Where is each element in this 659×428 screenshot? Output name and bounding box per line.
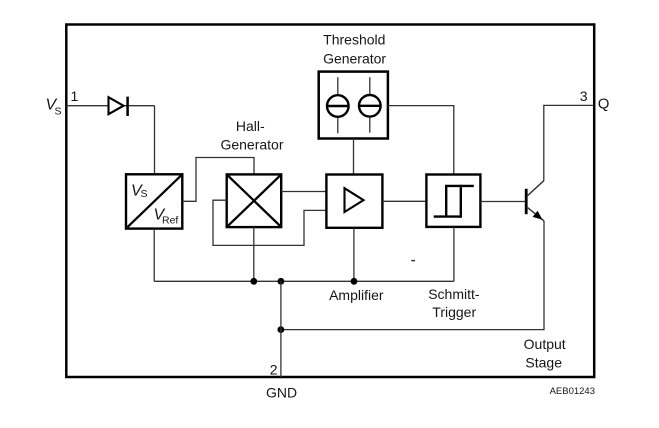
wire hall bottom to ground bus [253,227,255,281]
wire amplifier bottom to ground bus [353,228,355,281]
wire threshold bottom to amplifier top [353,139,355,175]
threshold generator block [319,72,388,139]
Hall generator block (X box) [227,174,282,227]
schmitt trigger block [426,175,480,227]
svg-text:1: 1 [71,88,79,104]
svg-text:2: 2 [270,362,278,378]
wire hall right to amplifier upper input [281,191,326,193]
junction dot amplifier/gnd [351,278,358,285]
svg-text:Schmitt-: Schmitt- [428,286,480,302]
stray dash mark [411,260,415,262]
svg-text:S: S [55,105,62,117]
pin 2 label GND [266,362,297,401]
ground bus wire [154,280,454,282]
wire amplifier output to schmitt input [382,200,426,202]
wire gnd vertical to pin 2 [280,281,282,377]
label Output Stage [524,336,566,370]
wire threshold right to schmitt top [388,106,454,175]
junction dot gnd tap [278,278,285,285]
svg-text:Amplifier: Amplifier [329,287,384,303]
junction dot hall/gnd [250,278,257,285]
svg-text:GND: GND [266,385,297,401]
wire schmitt output to transistor base [480,201,525,203]
wire vertical down to regulator top [154,106,156,176]
wire schmitt bottom to ground bus [453,227,455,281]
label Threshold Generator [323,31,386,66]
pin 3 label Q [580,88,610,113]
svg-text:Hall-: Hall- [236,118,265,134]
svg-text:Ref: Ref [162,215,178,227]
wire pin1 to diode to corner [66,105,154,107]
svg-text:Threshold: Threshold [323,31,385,47]
wire regulator bottom to ground bus [153,229,155,282]
wire hall left loop to amplifier lower input [213,200,326,245]
wire collector up to pin 3 [544,105,594,180]
svg-text:S: S [141,188,148,200]
label Hall-Generator [220,118,283,153]
svg-text:Trigger: Trigger [432,304,476,320]
diode D1 [109,97,128,116]
junction dot emitter return [278,326,285,333]
pin 1 label VS [46,88,79,117]
label Schmitt-Trigger [428,286,480,320]
wire regulator right stub up to hall top [182,158,254,202]
svg-text:AEB01243: AEB01243 [550,386,595,397]
voltage regulator block VS/VRef [126,174,182,228]
svg-text:Output: Output [524,336,566,352]
outer IC boundary box [66,25,594,378]
svg-text:Generator: Generator [220,137,283,153]
svg-text:Generator: Generator [323,51,386,67]
svg-text:3: 3 [580,88,588,104]
amplifier block [326,175,382,228]
svg-text:Stage: Stage [525,354,562,370]
svg-text:Q: Q [598,96,610,113]
wire emitter down to gnd return [281,221,544,330]
transistor Q1 output stage [526,181,544,221]
